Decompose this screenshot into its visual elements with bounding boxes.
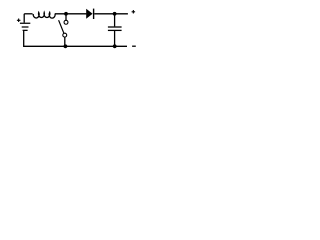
node B junction dot (diode/capacitor/output)	[113, 12, 117, 16]
capacitor C1 top plate	[108, 26, 122, 28]
switch S1 blade (open)	[59, 20, 64, 33]
battery plate long	[20, 22, 30, 24]
switch S1 top stub	[65, 14, 67, 20]
output + label	[132, 10, 136, 14]
capacitor C1 top lead	[114, 14, 116, 26]
wire diode cathode to output + terminal	[94, 13, 128, 15]
diode D1 triangle	[86, 9, 92, 19]
output - label	[132, 45, 136, 47]
battery plate medium	[22, 26, 29, 28]
capacitor C1 bottom plate	[108, 29, 122, 31]
inductor L1 (4 scallop arcs)	[33, 12, 55, 18]
node D junction dot (capacitor/bottom rail)	[113, 44, 117, 48]
wire top rail from battery to inductor	[24, 13, 32, 15]
wire inductor to diode anode	[55, 13, 87, 15]
node A junction dot (inductor/diode/switch)	[64, 12, 68, 16]
battery plate short	[23, 29, 28, 31]
switch S1 top contact circle	[64, 20, 68, 24]
diode D1 cathode bar	[93, 9, 94, 19]
switch S1 bottom contact circle	[63, 33, 67, 37]
node C junction dot (switch/bottom rail)	[64, 44, 68, 48]
capacitor C1 bottom lead	[114, 31, 116, 46]
switch S1 bottom stub	[64, 37, 66, 46]
wire battery negative down and along bottom rail	[24, 31, 127, 46]
battery + polarity sign	[17, 19, 21, 23]
battery B1 top stub	[23, 14, 25, 23]
